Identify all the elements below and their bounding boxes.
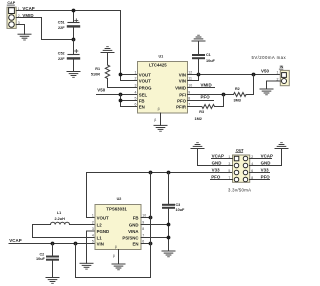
junction C51 top xyxy=(72,9,76,13)
svg-text:VOUT: VOUT xyxy=(139,78,151,83)
ground below U2 xyxy=(112,264,125,270)
wire V50 to SEL xyxy=(97,94,138,96)
svg-text:10uF: 10uF xyxy=(176,208,186,212)
wire V50 bus down xyxy=(120,95,122,107)
svg-text:PGND: PGND xyxy=(97,229,110,234)
capacitor C3 xyxy=(163,173,174,252)
svg-text:R2: R2 xyxy=(235,87,240,91)
svg-text:VCAP: VCAP xyxy=(9,238,21,243)
junction PS C3 xyxy=(167,236,171,240)
svg-text:4: 4 xyxy=(92,233,94,237)
wire R2 to V50 xyxy=(246,75,254,95)
junction GND C3 xyxy=(167,223,171,227)
svg-text:12: 12 xyxy=(188,70,192,74)
svg-text:5: 5 xyxy=(135,96,137,100)
ground below IN pin2 xyxy=(260,89,273,95)
U1 right pin numbers xyxy=(188,70,192,106)
svg-text:GND: GND xyxy=(129,222,139,227)
resistor R2 xyxy=(234,93,247,97)
inductor L1 xyxy=(51,222,70,224)
svg-text:10uF: 10uF xyxy=(206,59,216,63)
svg-text:7: 7 xyxy=(188,102,190,106)
wire VIN pin11 jog xyxy=(188,75,199,81)
wire PS/SNC pin7 xyxy=(141,237,169,239)
wire VMID jog xyxy=(16,18,73,40)
svg-text:GND: GND xyxy=(261,161,271,166)
svg-text:22F: 22F xyxy=(58,26,65,30)
U2 right pin names xyxy=(122,215,139,246)
connector IN xyxy=(280,70,289,85)
connector OUT xyxy=(233,155,250,182)
junction EN return xyxy=(74,242,78,246)
wire PFI row xyxy=(188,94,234,96)
svg-text:PFO: PFO xyxy=(201,94,211,99)
svg-text:2: 2 xyxy=(135,76,137,80)
svg-text:C2: C2 xyxy=(40,252,45,256)
junction VMID C51 xyxy=(72,38,76,42)
wire PFI to R3 xyxy=(215,95,224,107)
wire FB branch xyxy=(141,217,151,219)
svg-text:L2: L2 xyxy=(97,222,103,227)
svg-text:10: 10 xyxy=(188,83,192,87)
wire U1 pad to ground xyxy=(160,113,162,125)
ground below C52 xyxy=(67,72,80,78)
junction V50 node xyxy=(252,73,256,77)
capacitor C2 xyxy=(47,244,58,278)
capacitor C1 xyxy=(193,55,204,75)
svg-text:EN: EN xyxy=(139,104,145,109)
junction C2 xyxy=(51,242,55,246)
junction VCAP bus pin1 xyxy=(119,73,123,77)
svg-text:β: β xyxy=(115,245,117,249)
wire L1 right to L2 pin xyxy=(70,224,96,226)
svg-text:VIN: VIN xyxy=(97,241,104,246)
wire OUT pin1 VCAP xyxy=(212,158,233,160)
svg-text:1: 1 xyxy=(92,213,94,217)
U2 left pin names xyxy=(97,215,110,246)
svg-text:PFI: PFI xyxy=(179,92,186,97)
wire VCAP rail xyxy=(9,243,95,245)
wire PGND to ground xyxy=(87,231,96,263)
OUT right pin numbers xyxy=(251,155,253,180)
svg-text:PFIR: PFIR xyxy=(176,104,187,109)
svg-text:VINA: VINA xyxy=(128,229,139,234)
svg-text:4: 4 xyxy=(135,90,137,94)
svg-text:VMID: VMID xyxy=(201,82,212,87)
wire VMID stub xyxy=(188,87,215,89)
svg-text:CAP: CAP xyxy=(7,1,15,5)
U1 left pin numbers xyxy=(135,70,137,106)
svg-text:3.3v/50mA: 3.3v/50mA xyxy=(228,187,251,192)
wire EN xyxy=(121,106,138,108)
svg-text:VCAP: VCAP xyxy=(261,154,273,159)
svg-text:V33: V33 xyxy=(212,168,220,173)
svg-text:EN: EN xyxy=(132,241,138,246)
svg-text:L1: L1 xyxy=(97,235,103,240)
wire FB xyxy=(121,100,138,102)
ground above OUT left (flipped) xyxy=(191,143,204,149)
svg-text:LTC4425: LTC4425 xyxy=(149,62,167,67)
wire CAP pin3 to ground xyxy=(16,25,24,35)
svg-text:β: β xyxy=(158,107,160,111)
svg-text:TPS63031: TPS63031 xyxy=(106,207,127,212)
ground below PGND xyxy=(80,263,93,269)
svg-text:C1: C1 xyxy=(206,53,211,57)
svg-text:3: 3 xyxy=(135,83,137,87)
svg-text:5: 5 xyxy=(228,169,230,173)
svg-text:2: 2 xyxy=(92,220,94,224)
wire U2 pad to ground xyxy=(118,250,120,265)
resistor R3 xyxy=(202,105,215,109)
svg-text:U1: U1 xyxy=(159,54,164,58)
capacitor C52 xyxy=(68,40,79,72)
svg-text:1M2: 1M2 xyxy=(195,117,202,121)
junction EN xyxy=(149,242,153,246)
svg-text:β: β xyxy=(154,118,156,122)
svg-text:VOUT: VOUT xyxy=(139,72,151,77)
svg-text:10uF: 10uF xyxy=(36,257,46,261)
connector CAP xyxy=(7,7,16,28)
svg-text:8: 8 xyxy=(142,227,144,231)
U2 left pin numbers xyxy=(92,213,94,243)
wire VIN rail xyxy=(188,74,281,76)
svg-text:10: 10 xyxy=(142,213,146,217)
svg-text:VIN: VIN xyxy=(179,78,186,83)
OUT left pin numbers xyxy=(228,155,230,180)
svg-text:9: 9 xyxy=(142,220,144,224)
svg-text:FB: FB xyxy=(139,98,145,103)
svg-text:R1: R1 xyxy=(95,67,100,71)
svg-text:PFO: PFO xyxy=(211,175,221,180)
svg-text:510R: 510R xyxy=(91,72,100,76)
wire IN pin2 to ground xyxy=(267,81,281,89)
wire U1 pin1 xyxy=(121,74,138,76)
svg-text:VMID: VMID xyxy=(175,85,186,90)
svg-text:C52: C52 xyxy=(58,51,65,55)
svg-text:V33: V33 xyxy=(261,168,269,173)
wire OUT pin7 PFO xyxy=(211,179,233,181)
svg-text:9: 9 xyxy=(188,90,190,94)
svg-text:OUT: OUT xyxy=(236,148,245,152)
U1 right pin names xyxy=(175,72,187,109)
svg-text:PROG: PROG xyxy=(139,85,152,90)
transistor U2 TPS63031 xyxy=(95,205,141,250)
svg-text:U2: U2 xyxy=(117,197,122,201)
capacitor C51 xyxy=(68,11,79,40)
ground below C2 xyxy=(46,278,59,284)
wire GND pin9 xyxy=(141,224,169,226)
svg-text:PFO: PFO xyxy=(177,98,187,103)
svg-text:5V/200mA max: 5V/200mA max xyxy=(252,55,287,60)
svg-text:FB: FB xyxy=(133,215,139,220)
junction VIN pin11 xyxy=(197,73,201,77)
ground above C1 (flipped) xyxy=(192,35,205,55)
svg-text:6: 6 xyxy=(135,102,137,106)
junction PFI divider xyxy=(222,93,226,97)
svg-text:7: 7 xyxy=(142,233,144,237)
svg-text:VOUT: VOUT xyxy=(97,215,109,220)
ground below C3 xyxy=(162,251,175,257)
svg-text:1: 1 xyxy=(135,70,137,74)
wire OUT pin2 VCAP xyxy=(250,158,272,160)
wire U1 pin2 xyxy=(121,80,138,82)
wire PFO stub xyxy=(188,100,214,102)
junction rail C3 branch xyxy=(167,171,171,175)
junction FB xyxy=(149,216,153,220)
svg-text:β: β xyxy=(113,254,115,258)
svg-text:VCAP: VCAP xyxy=(212,154,224,159)
svg-text:C51: C51 xyxy=(58,21,65,25)
svg-text:6: 6 xyxy=(142,239,144,243)
wire FB EN vertical xyxy=(150,173,152,278)
U2 right pin numbers xyxy=(142,213,146,243)
svg-text:5: 5 xyxy=(92,239,94,243)
wire EN branch xyxy=(141,243,151,245)
svg-text:GND: GND xyxy=(212,161,222,166)
ground below U1 xyxy=(154,125,167,131)
wire VCAP rail xyxy=(16,11,120,81)
junction V50 FB xyxy=(119,99,123,103)
wire L1 left jog xyxy=(33,225,96,238)
svg-text:3M3: 3M3 xyxy=(234,98,241,102)
wire V33 to U2 VOUT xyxy=(87,173,96,218)
svg-text:V50: V50 xyxy=(97,87,105,92)
resistor R1 xyxy=(105,65,109,78)
wire V33 rail xyxy=(87,172,233,174)
svg-text:R3: R3 xyxy=(199,110,204,114)
wire OUT pin6 V33 xyxy=(250,172,270,174)
svg-text:3: 3 xyxy=(92,227,94,231)
svg-text:2.2uH: 2.2uH xyxy=(55,217,66,221)
svg-text:8: 8 xyxy=(188,96,190,100)
svg-text:11: 11 xyxy=(188,76,192,80)
svg-text:IN: IN xyxy=(280,65,284,69)
svg-text:1: 1 xyxy=(277,71,279,75)
junction rail FB branch xyxy=(149,171,153,175)
wire EN return bottom xyxy=(76,244,151,278)
svg-text:SEL: SEL xyxy=(139,92,148,97)
ground above R1 (flipped) xyxy=(101,47,114,65)
svg-text:PS/SNC: PS/SNC xyxy=(122,235,139,240)
junction V50 SEL xyxy=(119,93,123,97)
svg-text:VIN: VIN xyxy=(179,72,186,77)
svg-text:L1: L1 xyxy=(57,211,61,215)
wire R3 to PFB xyxy=(188,106,202,108)
op-amp U1 LTC4425 xyxy=(138,62,188,114)
svg-text:22F: 22F xyxy=(58,57,65,61)
wire OUT pin4 GND xyxy=(250,149,282,166)
wire OUT pin3 GND xyxy=(198,149,233,166)
wire R1 to PROG xyxy=(108,79,138,88)
wire OUT pin8 PFO xyxy=(250,179,270,181)
svg-text:V50: V50 xyxy=(261,68,269,73)
U1 left pin names xyxy=(139,72,152,109)
svg-text:PFO: PFO xyxy=(261,175,271,180)
ground below CAP xyxy=(18,34,31,40)
ground above OUT right (flipped) xyxy=(275,143,288,149)
svg-text:C3: C3 xyxy=(176,203,181,207)
